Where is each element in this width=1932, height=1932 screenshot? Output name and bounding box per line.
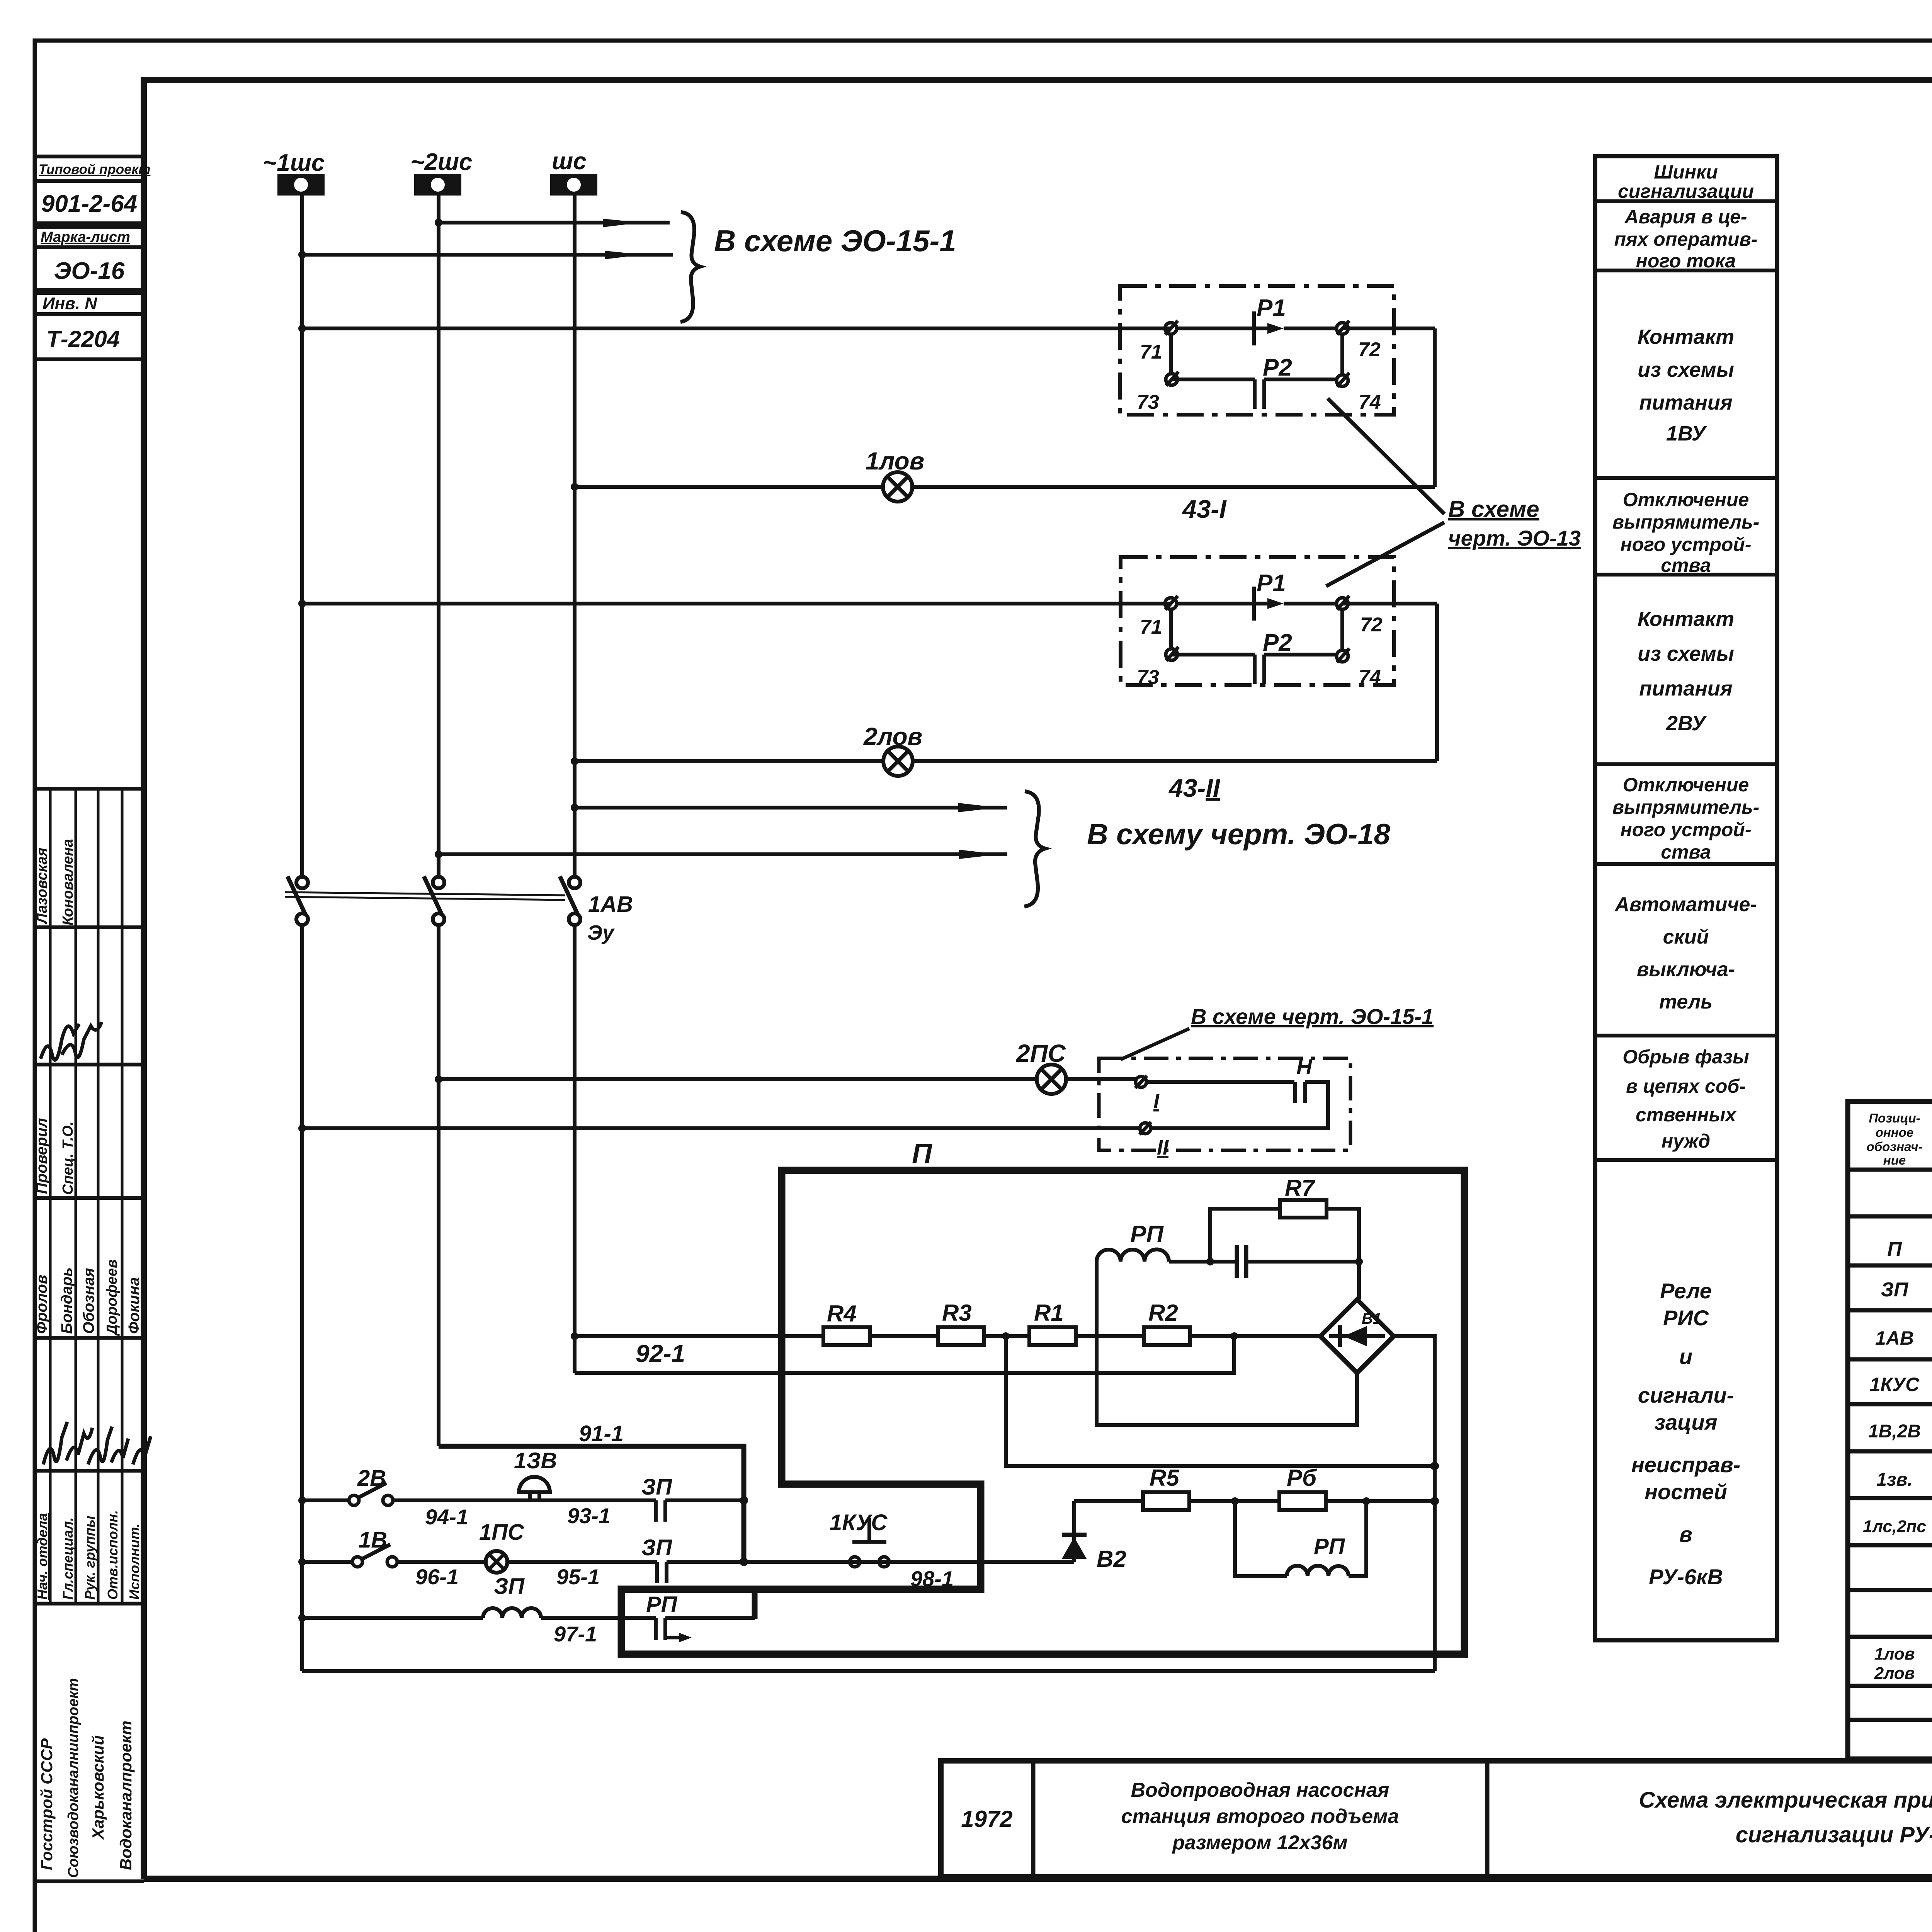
svg-text:Союзводоканалниипроект: Союзводоканалниипроект [65, 1678, 82, 1878]
svg-text:R7: R7 [1285, 1175, 1315, 1201]
svg-text:Позици-: Позици- [1869, 1111, 1920, 1125]
svg-text:Дорофеев: Дорофеев [104, 1259, 120, 1336]
svg-text:выключа-: выключа- [1637, 958, 1735, 981]
button 1КУС [830, 1510, 954, 1591]
phase monitor box (to ЭО-15-1) [1099, 1054, 1350, 1159]
svg-text:R5: R5 [1150, 1465, 1180, 1491]
svg-text:Шинки: Шинки [1654, 161, 1718, 183]
diode bridge В1 [1320, 1299, 1394, 1373]
legend cell Обрыв фазы [1622, 1046, 1749, 1152]
table header [1867, 1111, 1932, 1167]
svg-text:из схемы: из схемы [1638, 358, 1734, 381]
fuse ШС [550, 148, 597, 196]
table row 1КУС [1870, 1373, 1932, 1401]
svg-text:71: 71 [1140, 341, 1162, 363]
svg-text:91-1: 91-1 [579, 1421, 624, 1446]
wire L2 bypass line [575, 1332, 1238, 1373]
svg-text:ного устрой-: ного устрой- [1621, 534, 1752, 555]
svg-text:В схему черт. ЭО-18: В схему черт. ЭО-18 [1087, 818, 1391, 851]
breaker linkage [285, 892, 565, 900]
svg-text:и: и [1679, 1344, 1692, 1369]
bus ШС vertical [573, 196, 577, 877]
wire to ЭО-15-1 upper [435, 219, 670, 227]
svg-text:Р1: Р1 [1257, 295, 1286, 321]
svg-text:R3: R3 [942, 1300, 972, 1326]
legend cell Контакт 1ВУ [1638, 325, 1734, 445]
table row 1ЛС 2ПС [1863, 1502, 1932, 1540]
svg-text:онное: онное [1876, 1125, 1914, 1139]
svg-text:1лов: 1лов [1874, 1645, 1915, 1663]
breaker 1АВ pole 3 [560, 876, 633, 944]
svg-text:Р2: Р2 [1263, 629, 1292, 656]
svg-text:43-I: 43-I [1182, 495, 1227, 523]
legend cell Контакт 2ВУ [1638, 607, 1734, 735]
svg-text:РИС: РИС [1663, 1306, 1709, 1330]
bell 1ЗВ [514, 1448, 557, 1500]
svg-text:73: 73 [1137, 391, 1159, 413]
svg-text:неисправ-: неисправ- [1631, 1452, 1740, 1477]
coil ЗП row wire [298, 1614, 755, 1646]
svg-text:Р1: Р1 [1257, 570, 1286, 597]
resistor R7 [1210, 1175, 1359, 1262]
thick 91-1 wire from bus2 [439, 1421, 748, 1566]
bus2 lower vertical [437, 925, 440, 1446]
svg-text:ЗП: ЗП [641, 1535, 672, 1560]
svg-text:ного тока: ного тока [1636, 250, 1736, 272]
relay РП coil lower parallel [1235, 1501, 1366, 1576]
svg-text:98-1: 98-1 [910, 1566, 954, 1591]
svg-text:Т-2204: Т-2204 [46, 326, 120, 352]
svg-text:Лазовская: Лазовская [34, 848, 50, 925]
capacitor in П relay [1237, 1245, 1363, 1278]
title block [941, 1761, 1932, 1877]
legend cell Авария [1614, 206, 1758, 272]
svg-text:сигнализации РУ-6 кв.: сигнализации РУ-6 кв. [1736, 1822, 1932, 1847]
top-left stamp table [35, 156, 150, 359]
svg-text:~1шс: ~1шс [263, 150, 325, 176]
svg-text:питания: питания [1639, 391, 1732, 414]
svg-text:1зв.: 1зв. [1876, 1469, 1913, 1490]
svg-text:ства: ства [1661, 554, 1711, 576]
bus1 lower vertical [300, 925, 304, 1671]
resistor R3 [938, 1300, 984, 1345]
legend cell Шинки сигнализации [1618, 161, 1754, 202]
coil ЗП [483, 1574, 541, 1618]
wire phase return to bus1 [298, 1124, 1140, 1132]
diode В2 [1062, 1501, 1126, 1572]
leader note В схеме черт. ЭО-15-1 [1121, 1004, 1434, 1060]
svg-text:ЗП: ЗП [641, 1475, 672, 1500]
fuse ~1ШС [263, 150, 325, 196]
svg-text:R2: R2 [1148, 1300, 1178, 1326]
svg-text:Отключение: Отключение [1623, 774, 1749, 796]
wire 43-I feed line [298, 325, 1435, 487]
wire coil branch vertical [1097, 1262, 1357, 1425]
svg-text:Контакт: Контакт [1638, 325, 1734, 349]
svg-text:1972: 1972 [961, 1806, 1012, 1832]
wire bridge right output [1394, 1336, 1439, 1671]
bus3 lower vertical [573, 925, 577, 1373]
bus ~2ШС vertical [437, 196, 440, 877]
svg-text:Фролов: Фролов [33, 1275, 50, 1334]
svg-text:R4: R4 [827, 1301, 857, 1327]
switch 2В [349, 1466, 393, 1505]
svg-text:Отв.исполн.: Отв.исполн. [105, 1510, 121, 1600]
svg-text:1В,2В: 1В,2В [1868, 1421, 1921, 1442]
svg-text:размером 12х36м: размером 12х36м [1172, 1832, 1347, 1854]
wire bridge top feed [1357, 1262, 1361, 1299]
resistor R2 [1144, 1300, 1190, 1345]
fuse ~2ШС [410, 149, 472, 196]
svg-text:зация: зация [1654, 1410, 1717, 1434]
svg-text:Госстрой СССР: Госстрой СССР [37, 1738, 56, 1870]
table row ЗП [1881, 1274, 1932, 1301]
svg-text:Н: Н [1296, 1054, 1313, 1079]
svg-text:тель: тель [1659, 991, 1713, 1013]
table row 1В 2В [1868, 1407, 1932, 1447]
resistor R5 [1143, 1465, 1189, 1510]
svg-text:ЭО-16: ЭО-16 [54, 258, 125, 284]
component table frame [1848, 1102, 1932, 1759]
left stamp signature block [33, 789, 151, 1881]
svg-text:В схеме черт. ЭО-15-1: В схеме черт. ЭО-15-1 [1191, 1004, 1434, 1029]
legend cell Автоматический выключатель [1614, 893, 1757, 1013]
legend cell Реле РИС [1631, 1279, 1740, 1589]
svg-text:ностей: ностей [1645, 1480, 1727, 1504]
switch 1В row wire [298, 1558, 1074, 1589]
lamp 1ЛОВ [866, 447, 1227, 523]
svg-text:Проверил: Проверил [33, 1118, 50, 1194]
svg-text:Эу: Эу [587, 921, 615, 944]
svg-text:В схеме ЭО-15-1: В схеме ЭО-15-1 [714, 224, 956, 258]
svg-text:73: 73 [1137, 666, 1159, 689]
svg-text:ЗП: ЗП [494, 1574, 525, 1599]
svg-text:сигнали-: сигнали- [1638, 1383, 1734, 1407]
svg-text:1АВ: 1АВ [588, 892, 633, 917]
svg-text:1КУС: 1КУС [830, 1510, 888, 1535]
svg-text:71: 71 [1140, 616, 1162, 638]
wire 92-1 chain line [571, 1332, 1320, 1367]
svg-text:Схема электрическая принципи: Схема электрическая принципиальная [1639, 1787, 1932, 1813]
lamp 2ПС [1016, 1039, 1066, 1094]
svg-text:ного устрой-: ного устрой- [1621, 819, 1752, 840]
svg-text:Гл.специал.: Гл.специал. [60, 1517, 76, 1600]
contact ЗП on 1В row [641, 1535, 672, 1583]
impulse contact РП [646, 1592, 692, 1642]
svg-text:Водопроводная насосная: Водопроводная насосная [1131, 1779, 1389, 1801]
contact ЗП on 2В row [641, 1475, 672, 1522]
svg-text:В схеме: В схеме [1448, 496, 1539, 522]
svg-text:2ВУ: 2ВУ [1666, 712, 1707, 735]
svg-text:93-1: 93-1 [567, 1503, 611, 1528]
svg-text:74: 74 [1359, 666, 1381, 689]
relay РП coil upper [1097, 1221, 1237, 1265]
svg-text:РП: РП [1314, 1534, 1345, 1559]
svg-text:1АВ: 1АВ [1875, 1327, 1914, 1349]
svg-text:Обрыв фазы: Обрыв фазы [1622, 1046, 1749, 1068]
svg-text:I: I [1153, 1090, 1160, 1113]
svg-text:пях оператив-: пях оператив- [1614, 228, 1758, 250]
switch 2В row wire [298, 1497, 744, 1529]
relay П enclosure (thick) [621, 1138, 1464, 1654]
svg-text:РУ-6кВ: РУ-6кВ [1649, 1565, 1723, 1589]
svg-text:обознач-: обознач- [1867, 1139, 1923, 1154]
svg-text:1ЗВ: 1ЗВ [514, 1448, 557, 1473]
wire R5 R6 line [1074, 1497, 1435, 1505]
svg-text:72: 72 [1360, 614, 1383, 636]
brace and note В схеме ЭО-15-1 [680, 212, 956, 322]
svg-text:шс: шс [552, 148, 587, 175]
bus ~1ШС vertical [300, 196, 304, 877]
svg-text:станция второго подъема: станция второго подъема [1121, 1805, 1399, 1828]
relay contact box P1/P2 lower (43-II) [1121, 557, 1394, 689]
svg-text:~2шс: ~2шс [410, 149, 472, 175]
svg-text:сигнализации: сигнализации [1618, 180, 1754, 202]
wires to scheme ЭО-18 [435, 791, 1391, 906]
svg-text:74: 74 [1359, 391, 1381, 413]
svg-text:2лов: 2лов [1874, 1664, 1915, 1683]
svg-text:95-1: 95-1 [556, 1565, 600, 1589]
svg-text:в цепях соб-: в цепях соб- [1626, 1075, 1746, 1097]
table row 1АВ [1875, 1313, 1932, 1354]
svg-text:ства: ства [1661, 841, 1711, 863]
wire 1ЛОВ lamp line [571, 483, 1435, 491]
svg-text:1ВУ: 1ВУ [1666, 422, 1707, 445]
svg-text:92-1: 92-1 [636, 1340, 685, 1367]
svg-text:В2: В2 [1097, 1546, 1126, 1572]
svg-text:Исполнит.: Исполнит. [126, 1523, 142, 1600]
svg-text:Инв. N: Инв. N [43, 294, 97, 313]
svg-text:Водоканалпроект: Водоканалпроект [117, 1721, 135, 1870]
legend cell Отключение 2 [1612, 774, 1760, 863]
svg-text:Типовой проект: Типовой проект [39, 162, 150, 177]
svg-text:Фокина: Фокина [126, 1277, 143, 1334]
svg-text:П: П [912, 1138, 933, 1169]
wire bottom return line [302, 1669, 1435, 1673]
svg-text:96-1: 96-1 [415, 1565, 459, 1589]
svg-text:Рб: Рб [1287, 1465, 1317, 1491]
wire 43-II feed line [298, 600, 1437, 761]
svg-text:Обозная: Обозная [80, 1268, 97, 1334]
svg-text:в: в [1679, 1522, 1692, 1546]
signal bus legend column [1595, 156, 1777, 1640]
wire 2ЛОВ lamp line [571, 757, 1437, 765]
svg-text:Харьковский: Харьковский [89, 1735, 107, 1840]
svg-text:II: II [1157, 1136, 1169, 1159]
svg-text:Спец. Т.О.: Спец. Т.О. [60, 1121, 76, 1195]
svg-text:Бондарь: Бондарь [58, 1267, 75, 1334]
resistor R4 [823, 1301, 870, 1345]
svg-text:Контакт: Контакт [1638, 607, 1734, 631]
svg-text:Отключение: Отключение [1623, 489, 1749, 510]
svg-text:ственных: ственных [1636, 1104, 1737, 1126]
svg-text:1ПС: 1ПС [479, 1520, 524, 1545]
svg-text:Реле: Реле [1660, 1279, 1712, 1303]
svg-text:43-II: 43-II [1168, 774, 1221, 802]
svg-text:Р2: Р2 [1263, 354, 1292, 381]
leader note В схеме черт. ЭО-13 [1326, 398, 1581, 586]
breaker 1АВ pole 1 [287, 876, 308, 925]
svg-text:1КУС: 1КУС [1870, 1374, 1920, 1395]
svg-text:R1: R1 [1034, 1300, 1064, 1326]
svg-text:94-1: 94-1 [425, 1505, 468, 1529]
switch 1В [352, 1527, 397, 1567]
svg-text:РП: РП [1130, 1221, 1164, 1248]
svg-text:Нач. отдела: Нач. отдела [34, 1513, 50, 1600]
svg-text:Марка-лист: Марка-лист [41, 229, 130, 245]
svg-text:ние: ние [1883, 1153, 1906, 1167]
svg-text:1лс,2пс: 1лс,2пс [1863, 1517, 1926, 1536]
svg-text:В1: В1 [1362, 1310, 1381, 1327]
svg-text:из схемы: из схемы [1638, 642, 1734, 665]
table row 1ЗВ [1876, 1453, 1932, 1493]
wire R1 tap down [1006, 1336, 1435, 1466]
svg-text:питания: питания [1639, 677, 1732, 700]
resistor R6 [1279, 1465, 1326, 1510]
svg-text:Рук. группы: Рук. группы [82, 1515, 98, 1600]
wire 2ПС lamp line [435, 1075, 1136, 1083]
svg-text:выпрямитель-: выпрямитель- [1612, 511, 1760, 533]
legend cell Отключение 1 [1612, 489, 1760, 576]
lamp 2ЛОВ [863, 723, 1221, 802]
svg-text:Коновалена: Коновалена [60, 839, 76, 925]
svg-text:Автоматиче-: Автоматиче- [1614, 893, 1757, 916]
table row П [1887, 1223, 1932, 1262]
svg-text:черт. ЭО-13: черт. ЭО-13 [1448, 526, 1581, 550]
svg-text:ЗП: ЗП [1881, 1279, 1909, 1301]
relay contact box P1/P2 upper (43-I) [1120, 286, 1394, 415]
wire to ЭО-15-1 lower [298, 251, 673, 259]
svg-text:97-1: 97-1 [554, 1622, 597, 1646]
svg-text:выпрямитель-: выпрямитель- [1612, 796, 1760, 818]
svg-text:901-2-64: 901-2-64 [41, 190, 137, 217]
svg-text:ский: ский [1663, 926, 1709, 948]
breaker 1АВ pole 2 [424, 876, 444, 925]
svg-text:П: П [1887, 1238, 1902, 1260]
resistor R1 [1002, 1300, 1076, 1345]
svg-text:нужд: нужд [1662, 1130, 1710, 1152]
lamp 1ПС [479, 1520, 524, 1573]
svg-text:Авария в це-: Авария в це- [1624, 206, 1747, 228]
table row 1ЛОВ 2ЛОВ [1874, 1641, 1932, 1685]
svg-text:2ПС: 2ПС [1016, 1039, 1066, 1067]
svg-text:72: 72 [1358, 338, 1381, 361]
svg-text:РП: РП [646, 1592, 678, 1617]
